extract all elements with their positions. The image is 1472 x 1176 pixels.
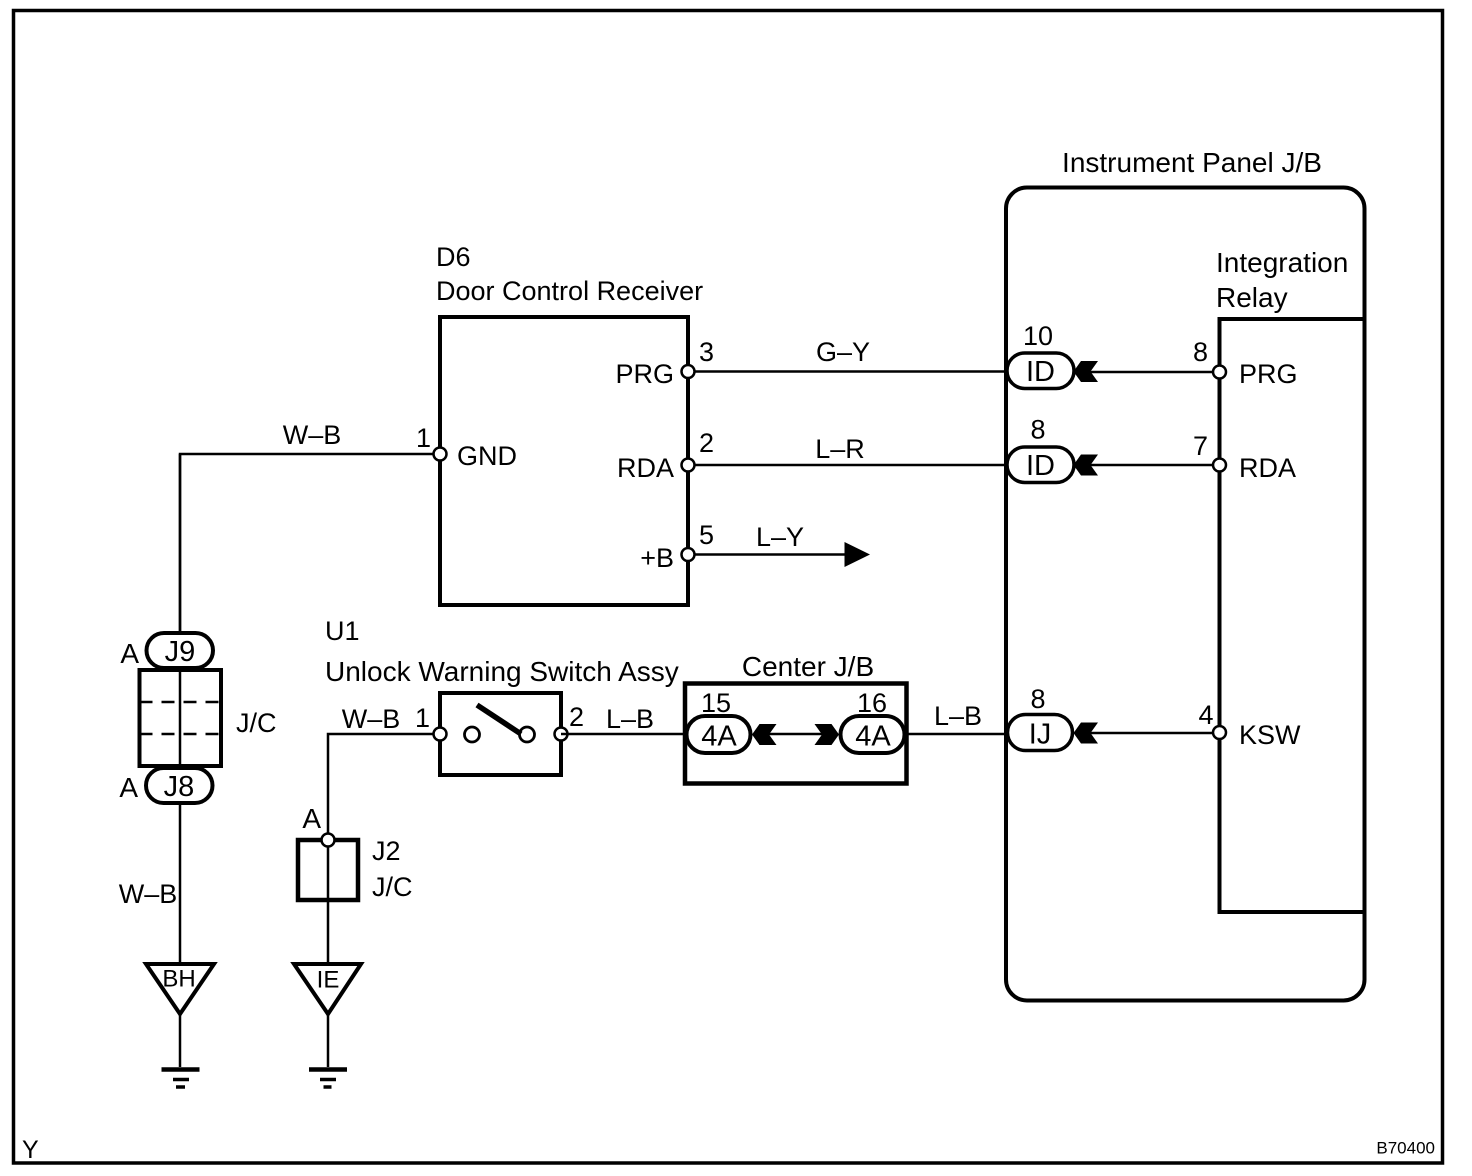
svg-text:RDA: RDA <box>617 453 674 483</box>
svg-text:IJ: IJ <box>1029 719 1052 751</box>
svg-text:15: 15 <box>701 688 731 718</box>
svg-text:8: 8 <box>1030 415 1045 445</box>
wire W–B vertical from GND wire through J/C to BH <box>179 454 182 962</box>
svg-text:A: A <box>120 638 139 669</box>
svg-text:IE: IE <box>317 967 340 994</box>
node A junction on wire to J2 <box>302 803 334 847</box>
svg-text:J2: J2 <box>372 836 401 866</box>
svg-text:J8: J8 <box>164 771 195 803</box>
svg-text:Y: Y <box>22 1136 39 1164</box>
pin 5 +B of D6 <box>640 520 714 573</box>
svg-text:W–B: W–B <box>119 879 178 909</box>
svg-text:A: A <box>302 803 321 834</box>
svg-text:7: 7 <box>1193 431 1208 461</box>
svg-text:3: 3 <box>699 337 714 367</box>
wire from connector ID to relay pin 7 <box>1090 464 1213 467</box>
svg-text:L–B: L–B <box>606 704 654 734</box>
pin 3 PRG of D6 <box>615 337 714 389</box>
pin 2 of U1 <box>555 702 585 741</box>
svg-text:2: 2 <box>569 702 584 732</box>
pin 4 KSW of integration relay <box>1198 700 1301 750</box>
ground connector IE <box>294 964 361 1014</box>
svg-text:10: 10 <box>1023 321 1053 351</box>
ground connector BH <box>146 964 214 1014</box>
integration relay <box>1216 247 1365 912</box>
svg-text:L–R: L–R <box>815 434 865 464</box>
wire from connector ID to relay pin 8 <box>1090 371 1213 374</box>
svg-text:BH: BH <box>162 966 195 993</box>
svg-text:U1: U1 <box>325 616 360 646</box>
svg-text:Unlock Warning Switch Assy: Unlock Warning Switch Assy <box>325 656 679 687</box>
ground symbol below IE <box>309 1014 347 1087</box>
pin 1 GND of D6 <box>416 423 517 471</box>
svg-text:ID: ID <box>1026 450 1055 482</box>
svg-text:8: 8 <box>1030 684 1045 714</box>
svg-text:PRG: PRG <box>1239 359 1298 389</box>
pin 1 of U1 <box>415 703 447 741</box>
svg-text:ID: ID <box>1026 356 1055 388</box>
junction connector J2 J/C <box>298 836 413 902</box>
svg-text:L–B: L–B <box>934 701 982 731</box>
svg-text:KSW: KSW <box>1239 720 1301 750</box>
svg-text:D6: D6 <box>436 242 471 272</box>
junction block J/C <box>140 670 277 766</box>
wire from connector IJ to relay pin 4 <box>1090 732 1213 735</box>
svg-text:4A: 4A <box>855 721 891 753</box>
wire L–R from D6 pin 2 to connector ID <box>688 434 1007 465</box>
svg-text:PRG: PRG <box>615 359 674 389</box>
svg-text:G–Y: G–Y <box>816 337 870 367</box>
pin 2 RDA of D6 <box>617 428 714 483</box>
svg-text:16: 16 <box>857 688 887 718</box>
connector ID (8) <box>1007 415 1098 483</box>
svg-text:2: 2 <box>699 428 714 458</box>
svg-text:W–B: W–B <box>342 704 401 734</box>
wire L–B from U1 pin 2 to center J/B <box>561 704 686 734</box>
connector 15 (4A) <box>687 688 777 753</box>
svg-text:J/C: J/C <box>236 708 277 738</box>
svg-text:L–Y: L–Y <box>756 522 804 552</box>
svg-text:1: 1 <box>416 423 431 453</box>
connector ID (10) <box>1007 321 1098 389</box>
switch contacts and blade inside U1 <box>465 705 535 742</box>
svg-text:1: 1 <box>415 703 430 733</box>
svg-text:Integration: Integration <box>1216 247 1348 278</box>
svg-text:J/C: J/C <box>372 872 413 902</box>
svg-text:4A: 4A <box>701 721 737 753</box>
junction connector J9 (A) <box>120 633 213 669</box>
junction connector J8 (A) <box>119 768 212 803</box>
connector IJ (8) <box>1008 684 1099 751</box>
center J/B <box>685 651 907 784</box>
svg-text:A: A <box>119 772 138 803</box>
wire L–Y from D6 pin 5 with arrow <box>688 522 870 567</box>
svg-text:Instrument Panel J/B: Instrument Panel J/B <box>1062 147 1322 178</box>
instrument panel J/B <box>1006 147 1365 1001</box>
svg-text:GND: GND <box>457 441 517 471</box>
wire W–B from D6 pin 1 down to J9 <box>180 420 440 635</box>
component U1 Unlock Warning Switch Assy <box>325 616 679 775</box>
svg-text:RDA: RDA <box>1239 453 1296 483</box>
connector 16 (4A) <box>815 688 905 753</box>
svg-text:J9: J9 <box>165 636 196 668</box>
component D6 Door Control Receiver <box>436 242 703 605</box>
ground symbol below BH <box>162 1014 200 1087</box>
svg-text:8: 8 <box>1193 337 1208 367</box>
svg-text:+B: +B <box>640 543 674 573</box>
wire between connectors 15 and 16 inside center J/B <box>766 733 824 736</box>
wire W–B from U1 pin 1 to node A <box>328 704 440 840</box>
wire from J2 to IE <box>327 840 330 962</box>
svg-text:Center J/B: Center J/B <box>742 651 874 682</box>
svg-text:Relay: Relay <box>1216 282 1288 313</box>
svg-text:5: 5 <box>699 520 714 550</box>
svg-text:B70400: B70400 <box>1376 1139 1435 1158</box>
pin 7 RDA of integration relay <box>1193 431 1296 483</box>
pin 8 PRG of integration relay <box>1193 337 1298 389</box>
svg-text:Door Control Receiver: Door Control Receiver <box>436 276 703 306</box>
wire G–Y from D6 pin 3 to connector ID <box>688 337 1007 372</box>
svg-text:W–B: W–B <box>283 420 342 450</box>
svg-text:4: 4 <box>1198 700 1213 730</box>
wire L–B from center J/B to connector IJ <box>907 701 1008 734</box>
